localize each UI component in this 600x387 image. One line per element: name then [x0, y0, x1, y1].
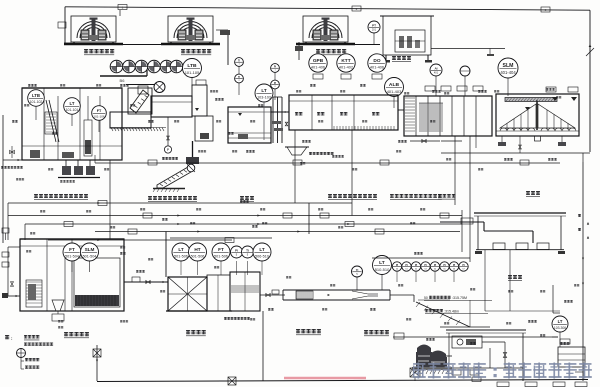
- plant inlet pipe: [2, 115, 4, 243]
- instrument SLM-401: [498, 58, 518, 78]
- svg-text:103-103: 103-103: [257, 96, 271, 100]
- instrument circle row under blower 1-2 (6 motor circles): [110, 60, 123, 73]
- support rail for right instrument row: [372, 257, 470, 259]
- svg-text:401-406: 401-406: [370, 66, 384, 70]
- hatch strip in pump house tank: [405, 97, 415, 99]
- svg-text:LT: LT: [261, 88, 266, 93]
- misc pipe labels small text: [28, 84, 37, 87]
- pump station inner box: [452, 336, 482, 348]
- label excess sludge pipe: [309, 152, 334, 155]
- svg-text:PI: PI: [235, 248, 238, 252]
- trunk verticals: [7, 203, 9, 240]
- tag small near outfall: [394, 333, 404, 339]
- inlet valve: [10, 150, 12, 153]
- svg-text:101-102: 101-102: [30, 100, 43, 104]
- air duct right of building: [431, 48, 505, 50]
- label 3# blower house: [316, 49, 346, 55]
- pipe aeration tank to cloth filter: [124, 281, 168, 283]
- tag boxes above settling tanks: [425, 86, 435, 91]
- blower unit 1: [71, 16, 116, 42]
- pipe bio tank to settling tanks: [398, 109, 404, 111]
- dosing building feed pipes down: [484, 250, 486, 311]
- instrument FT-101-106: [92, 106, 107, 121]
- label dosing room right: [508, 275, 522, 281]
- pipe eq tank to bio tank: [271, 111, 289, 113]
- label secondary clarifier: [526, 191, 540, 197]
- diffuser ticks in bio tank: [333, 126, 335, 130]
- label cloth filter: [186, 330, 206, 336]
- wire right edge drop: [589, 10, 591, 152]
- tag box under LTB: [196, 80, 206, 85]
- instrument LT-101-101: [64, 98, 81, 115]
- pink marker line: [284, 377, 366, 380]
- parshall flume narrowing: [352, 291, 368, 294]
- dosing building posts: [477, 216, 479, 250]
- wire blower interconnect: [119, 10, 121, 16]
- label coarse screen & lift pump house: [34, 194, 88, 200]
- instrument row support line: [170, 237, 272, 239]
- filter side tank: [207, 275, 230, 311]
- heavy downpipe to grit separator: [192, 141, 194, 165]
- wire from pump house down: [109, 160, 111, 239]
- svg-text:HT: HT: [194, 247, 200, 252]
- svg-text:LT: LT: [259, 247, 264, 252]
- trunk merge arrows: [97, 202, 100, 204]
- tag box T3 on top line: [541, 7, 550, 12]
- chemical dosing skid box: [558, 347, 585, 367]
- tall standpipe box: [192, 85, 207, 116]
- instrument motor circle fine screen: [154, 82, 165, 93]
- wire riser x95: [94, 155, 96, 163]
- svg-text:510-510: 510-510: [375, 267, 390, 272]
- svg-text:FT: FT: [218, 247, 224, 252]
- label 1# blower house: [84, 49, 114, 55]
- zone labels in bio tank: [295, 112, 302, 115]
- svg-text:LT: LT: [379, 260, 385, 266]
- svg-text:FT: FT: [97, 109, 102, 113]
- power stub line under blower1: [100, 75, 147, 77]
- label grit separator: [162, 157, 178, 160]
- aeration left hatched strip: [26, 280, 42, 307]
- bio tank A: [289, 95, 398, 130]
- grit channel lower channel: [110, 112, 151, 128]
- svg-text:AI: AI: [434, 66, 437, 70]
- svg-text:PT: PT: [372, 23, 376, 27]
- clarifier inlet tags: [546, 87, 556, 92]
- instrument LT-103-306: [552, 316, 568, 332]
- tag boxes pump station: [452, 370, 461, 375]
- instrument SLM-501: [81, 243, 99, 261]
- svg-text:2: 2: [356, 7, 358, 11]
- svg-text:501-504: 501-504: [65, 255, 79, 259]
- svg-text:B6: B6: [120, 78, 126, 83]
- box with X near outfall bottom: [410, 368, 420, 377]
- instrument KTT-401: [337, 54, 355, 72]
- tank bottom details: [30, 150, 40, 158]
- arrow marks right edge: [582, 258, 584, 260]
- label plant inlet: [1, 166, 23, 169]
- clarifier scraper triangles: [500, 104, 536, 128]
- blower unit 3: [303, 16, 348, 42]
- svg-text:LTB: LTB: [32, 93, 40, 98]
- clarifier walkway beam: [505, 98, 557, 102]
- svg-text:SLM: SLM: [85, 247, 95, 252]
- label parshall flume: [364, 330, 389, 336]
- legend instrument bubble: [17, 349, 26, 358]
- label settling & recycle pump house: [390, 194, 442, 200]
- tank internal dividers: [43, 88, 45, 160]
- blower house building: [383, 16, 431, 55]
- bottom right tag boxes under drain: [497, 382, 509, 387]
- watermark publisher text: [413, 363, 592, 379]
- svg-text:501-506: 501-506: [214, 255, 228, 259]
- svg-text::315.48m: :315.48m: [444, 310, 459, 314]
- svg-text:ALB: ALB: [389, 82, 400, 88]
- small pump P under channel: [164, 146, 171, 153]
- label bio tank A: [328, 194, 377, 200]
- legend note: [5, 335, 9, 339]
- grit separator inclined conveyor: [157, 167, 191, 188]
- pump outlet pipe: [446, 355, 452, 357]
- instrument LTB-101: [183, 59, 202, 78]
- trunk tag boxes: [98, 201, 107, 206]
- instrument row above filters: [172, 243, 190, 261]
- clarifier under-stubs: [501, 136, 503, 142]
- svg-text:101-106: 101-106: [93, 115, 104, 119]
- svg-text:TI: TI: [246, 248, 249, 252]
- svg-text:101-101: 101-101: [66, 108, 79, 112]
- pipe from UV to outfall: [390, 294, 414, 296]
- label 2# blower house: [181, 49, 211, 55]
- instrument PI-103b: [271, 80, 280, 89]
- svg-text:401-403: 401-403: [387, 89, 402, 94]
- instrument FT-501: [63, 243, 81, 261]
- outfall pump station roof: [446, 329, 526, 331]
- small text near contact tank: [224, 317, 250, 320]
- grit separator base: [153, 188, 185, 190]
- valve on bottom drain line: [228, 377, 236, 385]
- standpipe lower box: [195, 116, 213, 141]
- pumps below coarse screen tank: [65, 160, 67, 170]
- svg-text:401: 401: [434, 72, 439, 75]
- aeration inner box: [74, 258, 120, 307]
- normal level text 315.48: [425, 309, 443, 312]
- tag box T1 on top line: [118, 5, 127, 10]
- clarifier scalloped bottom: [500, 128, 576, 131]
- svg-text:FT: FT: [69, 247, 75, 252]
- svg-text::315.75M: :315.75M: [452, 296, 467, 300]
- svg-text:TI: TI: [356, 268, 359, 272]
- svg-text:KTT: KTT: [341, 58, 350, 64]
- instrument DO-401: [368, 54, 386, 72]
- submersible pump dark blobs: [417, 345, 431, 354]
- svg-text:401-404: 401-404: [500, 70, 516, 75]
- svg-text:LT: LT: [70, 101, 75, 106]
- instrument single: [352, 266, 363, 277]
- secondary clarifier: [496, 94, 579, 136]
- small outfall symbols left: [2, 228, 9, 233]
- instrument AI-401: [430, 64, 442, 76]
- svg-text:501-506: 501-506: [174, 255, 188, 259]
- small box under aeration tank: [52, 314, 64, 321]
- instrument PI-103a: [271, 64, 280, 73]
- svg-text:401-406: 401-406: [311, 66, 325, 70]
- tag box top-left: [58, 22, 66, 28]
- right bus tiny vertical labels: [578, 214, 581, 217]
- instrument TI-102a: [235, 58, 244, 67]
- svg-text:401-402: 401-402: [339, 66, 353, 70]
- screen element diagonal: [46, 100, 56, 142]
- tag box under GPB: [313, 74, 323, 79]
- top power trunk line: [65, 7, 590, 10]
- label row y194-197 small titles: [438, 194, 455, 200]
- instrument small row right bottom: [373, 256, 392, 275]
- label fine screen & grit chamber: [148, 196, 197, 202]
- feed to LT-103-306: [552, 285, 554, 313]
- svg-text:SLM: SLM: [503, 63, 514, 69]
- extra micro pipe labels: [210, 90, 218, 92]
- aeration dark media band: [75, 295, 119, 306]
- label equalization tank: [240, 196, 254, 202]
- svg-text:GPB: GPB: [313, 58, 324, 64]
- coarse screen / inlet pump house tank: [22, 88, 122, 160]
- dosing feed wire jog: [440, 221, 484, 223]
- instrument LT-103: [255, 84, 273, 102]
- channel floor hatch band: [111, 128, 113, 132]
- tag box T2 on top line: [352, 6, 361, 11]
- svg-text:LT: LT: [558, 319, 563, 324]
- dosing building floor: [476, 249, 564, 251]
- instrument GPB-401: [309, 54, 327, 72]
- label UV disinfection: [296, 329, 321, 335]
- river bank cross-section: [416, 302, 470, 327]
- svg-text:201: 201: [372, 29, 377, 32]
- clarifier outlet lines: [441, 140, 462, 142]
- small pipe contact tank to UV: [260, 294, 285, 296]
- svg-text:103-306: 103-306: [554, 326, 566, 330]
- svg-text:LTB: LTB: [187, 63, 197, 69]
- grit separator motor: [187, 164, 195, 172]
- pump station piping: [482, 341, 505, 343]
- bottom drain line: [97, 380, 588, 382]
- clarifier center bottom notch: [535, 136, 541, 141]
- instrument TI-102b: [235, 74, 244, 83]
- filter tank with X brace: [168, 277, 207, 311]
- column bundle hatch in settling tank: [419, 103, 421, 132]
- stems from instrument row: [180, 261, 182, 275]
- equalization tank: [228, 107, 271, 143]
- pipes below settling tanks: [410, 140, 440, 142]
- valve on bottom drain riser: [93, 349, 101, 357]
- instrument ALB-401: [385, 78, 404, 97]
- clarifier internal supports: [506, 123, 508, 129]
- fine screen house box: [128, 88, 152, 114]
- small text under pumps: [60, 180, 75, 183]
- svg-text:101-105: 101-105: [185, 70, 200, 75]
- instrument PT-201: [368, 21, 380, 33]
- aeration inlet pipes: [8, 246, 20, 248]
- aeration internal dividers: [46, 239, 48, 311]
- contact tank: [230, 272, 260, 311]
- sludge hopper under bio tank: [287, 147, 307, 155]
- vertical from trunk x309: [308, 203, 310, 234]
- primary settling / recycle pump house tanks: [404, 96, 492, 136]
- cable trunk lines: [8, 202, 352, 204]
- grit channel main box: [151, 96, 192, 117]
- instrument LTB-101-102: [28, 90, 45, 107]
- dosing building roof: [474, 212, 566, 214]
- aeration funnel: [52, 300, 64, 311]
- svg-text:DO: DO: [373, 58, 380, 64]
- riser fittings: [272, 121, 281, 124]
- contact tank downpipe: [262, 311, 264, 381]
- dosing tank labels: [560, 342, 569, 345]
- svg-text:501-506: 501-506: [191, 255, 205, 259]
- svg-text:506-510: 506-510: [255, 255, 269, 259]
- svg-text:50: 50: [424, 296, 428, 300]
- instrument small right of AI: [460, 66, 470, 76]
- label blower house: [392, 56, 411, 62]
- pump column in tank: [84, 120, 92, 156]
- fine screen diagonal belt: [130, 90, 149, 113]
- UV module block: [296, 291, 313, 299]
- label cyclone grit tank: [64, 332, 89, 338]
- air duct main under blowers: [122, 44, 166, 46]
- right edge bus: [582, 162, 584, 381]
- clarifier center column: [536, 100, 538, 130]
- clarifier center column thick: [536, 101, 538, 130]
- blower unit 2: [168, 16, 213, 42]
- riser pipes eq tank: [272, 97, 274, 143]
- svg-text:LT: LT: [178, 247, 183, 252]
- svg-text:1: 1: [122, 5, 124, 9]
- dosing room inner boxes: [493, 243, 505, 250]
- left aeration tank complex: [20, 239, 124, 311]
- vertical feed to cloth filter: [165, 232, 167, 278]
- signal trunk y163: [95, 162, 560, 164]
- svg-text:501-504: 501-504: [83, 255, 97, 259]
- UV disinfection channel: [283, 289, 390, 291]
- svg-text:3: 3: [545, 8, 547, 12]
